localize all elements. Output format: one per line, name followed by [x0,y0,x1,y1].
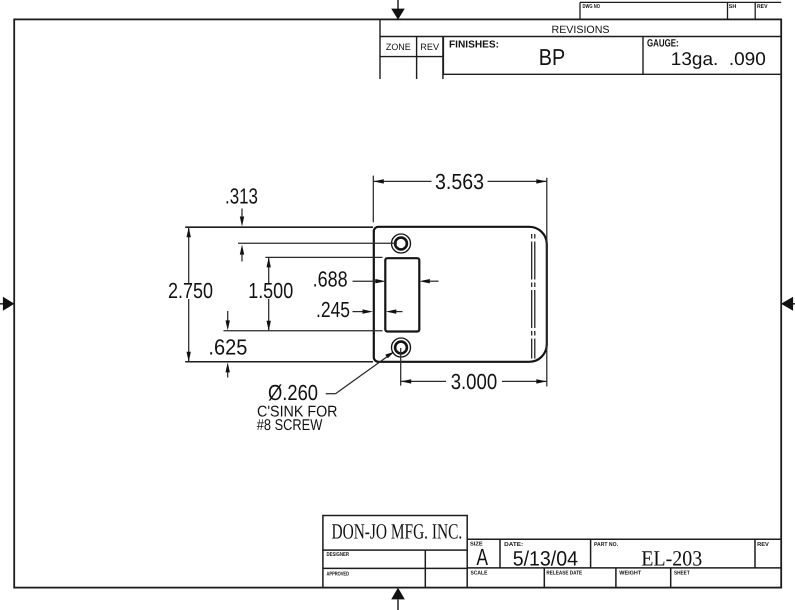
svg-text:5/13/04: 5/13/04 [513,547,578,570]
svg-text:ZONE: ZONE [386,42,411,52]
svg-text:.688: .688 [313,267,348,292]
svg-text:REV: REV [757,4,768,10]
svg-text:1.500: 1.500 [248,278,293,303]
svg-text:PART NO.: PART NO. [594,542,618,548]
svg-text:SHEET: SHEET [674,571,690,577]
svg-text:REVISIONS: REVISIONS [552,24,610,36]
svg-text:BP: BP [539,44,565,70]
svg-text:DESIGNER: DESIGNER [327,552,350,558]
svg-text:REV: REV [420,42,440,52]
svg-text:#8 SCREW: #8 SCREW [257,417,323,434]
svg-text:REV: REV [757,542,769,548]
svg-text:13ga. .090: 13ga. .090 [671,48,766,69]
svg-text:APPROVED: APPROVED [327,572,350,578]
svg-text:A: A [477,544,489,570]
svg-text:WEIGHT: WEIGHT [619,571,641,577]
svg-text:Ø.260: Ø.260 [268,380,318,405]
svg-text:3.000: 3.000 [451,369,498,394]
svg-text:DWG NO: DWG NO [583,4,601,10]
svg-text:3.563: 3.563 [435,169,484,194]
svg-text:RELEASE DATE: RELEASE DATE [546,571,582,577]
svg-text:SH: SH [729,4,737,10]
svg-text:.313: .313 [225,184,258,209]
svg-text:2.750: 2.750 [168,278,213,303]
svg-text:SCALE: SCALE [471,571,488,577]
svg-text:FINISHES:: FINISHES: [449,40,499,51]
svg-text:.245: .245 [316,297,350,322]
svg-text:EL-203: EL-203 [641,547,702,571]
svg-text:DON-JO MFG. INC.: DON-JO MFG. INC. [332,520,463,544]
svg-text:.625: .625 [208,334,247,359]
